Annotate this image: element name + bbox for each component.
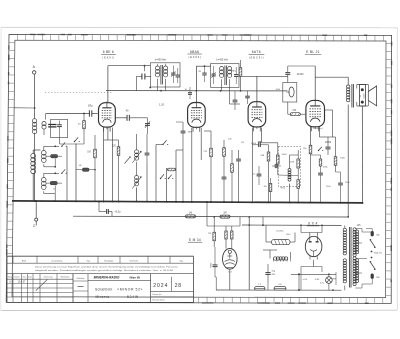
wire: [44, 145, 59, 147]
resistor 2M: [220, 215, 230, 218]
wire: [294, 227, 296, 233]
tube 6AT6 U3: [248, 102, 266, 127]
svg-text:1M: 1M: [208, 233, 211, 235]
capacitor C7: [222, 176, 227, 178]
resistor R2: [94, 149, 97, 158]
wire: [315, 76, 348, 78]
resistor R10 521R: [297, 159, 300, 168]
wire transformer taps: [355, 228, 362, 230]
wire: [195, 66, 197, 102]
capacitor 1500b: [338, 182, 343, 184]
resistor 300k: [319, 159, 322, 166]
coil T2a: [220, 67, 224, 71]
power transformer core: [349, 227, 351, 288]
capacitor 0,1: [257, 173, 262, 175]
AVC dashed line: [45, 92, 112, 94]
svg-text:6AT6: 6AT6: [252, 50, 261, 54]
voltage selector fuse top: [371, 231, 374, 236]
svg-text:19.4.57: 19.4.57: [18, 281, 26, 283]
core slug resistor 2: [50, 181, 57, 184]
tube 6BE6 U1: [99, 103, 116, 127]
svg-text:2M: 2M: [223, 213, 226, 215]
coupling capacitor 21000: [285, 72, 290, 74]
dial lamp: [326, 277, 333, 284]
wire: [215, 277, 217, 290]
trimmer T1a: [171, 72, 175, 74]
svg-text:6BA6: 6BA6: [190, 50, 199, 54]
svg-text:0130: 0130: [364, 93, 366, 99]
wire: [155, 145, 157, 202]
tube EM34 U5: [223, 248, 238, 269]
wire: [242, 224, 342, 226]
tube EBL21 U4: [306, 100, 325, 126]
svg-text:6 BE 6: 6 BE 6: [103, 50, 114, 54]
antenna coil L1: [32, 119, 36, 123]
core slug resistor 1: [51, 155, 58, 158]
capacitor: [233, 99, 238, 101]
fuse J2: [255, 287, 266, 291]
resistor 20k: [269, 184, 272, 192]
padder cap: [145, 123, 150, 125]
wire: [287, 91, 289, 102]
wire: [43, 164, 45, 167]
title block revision table: [7, 278, 73, 280]
terminal A: [33, 71, 36, 74]
title block frame: [7, 255, 194, 257]
IF transformer T2: [211, 64, 239, 88]
power transformer primary: [343, 228, 346, 231]
decoupling capacitor: [144, 66, 146, 72]
svg-text:E M 34: E M 34: [189, 238, 201, 242]
svg-text:÷0,5μ: ÷0,5μ: [115, 211, 122, 214]
switch S1b: [61, 173, 62, 174]
resistor R1 50: [83, 121, 86, 129]
wire: [314, 66, 316, 100]
power transformer secondary outer: [355, 230, 358, 233]
resistor R9 5000: [277, 155, 280, 164]
wire: [221, 79, 223, 91]
cathode resistor 700: [258, 141, 261, 143]
svg-text:a.l.Ⅳ: a.l.Ⅳ: [303, 279, 308, 281]
wire: [66, 146, 68, 201]
svg-text:1M: 1M: [87, 152, 90, 154]
wire: [60, 143, 85, 145]
voltage selector fuse bottom: [371, 274, 374, 279]
switch S1a: [61, 146, 62, 147]
resistor R11 50k: [297, 180, 300, 189]
svg-text:5000: 5000: [282, 154, 287, 156]
svg-text:f₁=455 kHz: f₁=455 kHz: [155, 58, 167, 61]
resistor R21: [225, 231, 227, 239]
trimmer T2a: [211, 73, 215, 75]
resistor 1M b: [186, 215, 196, 218]
switch S3: [74, 141, 75, 142]
svg-text:Minerva: Minerva: [96, 295, 110, 299]
wire lamp rail: [291, 273, 336, 275]
power transformer secondary: [353, 228, 356, 231]
IF2 core: [224, 66, 226, 86]
switch S2c: [168, 178, 169, 179]
selector contact dots: [371, 251, 373, 253]
title block drawing number: [150, 274, 152, 303]
svg-text:E BL 21: E BL 21: [306, 50, 320, 54]
wire: [310, 127, 312, 146]
selector switch 1: [371, 241, 375, 247]
capacitor T2 pre: [202, 72, 206, 74]
title block scale box: [72, 274, 74, 303]
bypass capacitor 50000: [326, 146, 331, 148]
capacitor 0.5: [106, 209, 108, 214]
wire: [309, 233, 311, 238]
title block replacement cells: [151, 296, 194, 298]
fuse 68: [274, 287, 286, 291]
wire: [106, 90, 288, 92]
svg-text:524W: 524W: [127, 295, 139, 299]
electrolytic box: [283, 83, 297, 103]
selector switch 2: [371, 263, 375, 269]
coupling coil L1b: [42, 122, 46, 126]
wire: [43, 191, 45, 193]
speaker cone: [368, 86, 376, 106]
trimmer C0: [57, 124, 62, 126]
resistor R4: [210, 148, 213, 157]
wire: [157, 79, 159, 91]
resistor 700: [309, 145, 312, 154]
screen cap 40: [126, 115, 128, 121]
wire transformer down: [347, 111, 349, 217]
svg-text:1M: 1M: [189, 212, 192, 214]
potentiometer: [125, 157, 131, 164]
electrolytic 60u: [265, 272, 270, 274]
resistor 1500: [334, 157, 337, 166]
svg-text:72K: 72K: [292, 110, 297, 112]
capacitor 1R2: [181, 130, 186, 132]
svg-text:Gepr.: Gepr.: [28, 276, 33, 278]
output transformer T3 primary: [347, 85, 350, 88]
grid capacitor 1Rg: [88, 110, 90, 116]
switch S2a: [162, 144, 163, 145]
svg-text:2024: 2024: [153, 283, 168, 289]
title block header row: [7, 262, 194, 264]
IF1 core: [160, 65, 162, 85]
svg-text:75000: 75000: [211, 262, 213, 268]
paper edge: [1, 26, 397, 29]
wire: [207, 225, 240, 227]
title block notice text: [7, 273, 194, 275]
terminal C: [35, 218, 38, 221]
wire: [107, 66, 109, 103]
wire: [103, 128, 105, 202]
switch tone: [318, 150, 319, 151]
wire speaker down: [361, 106, 363, 203]
trimmer T1b: [176, 74, 180, 76]
grid resistor 72K: [290, 113, 300, 116]
osc coil L5: [135, 150, 139, 154]
wire: [290, 154, 299, 156]
capacitor C9: [258, 143, 260, 148]
wire: [33, 149, 40, 151]
svg-text:1500: 1500: [340, 158, 346, 160]
tube 6X4 U6: [305, 236, 322, 256]
svg-text:Schaltbild: Schaltbild: [95, 287, 112, 291]
coil L4: [42, 178, 47, 183]
capacitor 10: [188, 92, 192, 94]
AF choke: [288, 169, 291, 172]
wire: [92, 93, 94, 110]
wire: [73, 215, 348, 218]
svg-text:521R: 521R: [289, 162, 294, 164]
svg-text:6 X 4: 6 X 4: [308, 222, 317, 226]
padder C: [145, 152, 150, 154]
svg-text:Gez.: Gez.: [23, 276, 27, 278]
coil T2b: [228, 67, 232, 71]
capacitor C10: [274, 164, 276, 168]
svg-text:Zeichnung: Zeichnung: [44, 276, 53, 278]
wire: [325, 109, 333, 111]
title block company name: [88, 280, 151, 282]
svg-text:28: 28: [175, 283, 182, 289]
svg-text:1R: 1R: [241, 142, 244, 144]
IF transformer T1: [150, 63, 180, 87]
svg-text:21000: 21000: [297, 73, 304, 76]
coil L3: [42, 151, 47, 156]
wire: [44, 172, 59, 174]
svg-text:MINERVA-RADIO: MINERVA-RADIO: [94, 276, 120, 280]
svg-text:10000: 10000: [325, 142, 332, 144]
output transformer core: [351, 84, 353, 108]
heater winding coil: [274, 257, 277, 260]
switch S2b: [160, 178, 161, 179]
ground bus: [12, 201, 363, 203]
svg-text:( 1 R wegen ): ( 1 R wegen ): [310, 128, 323, 130]
wire EM34 down: [229, 269, 231, 290]
resistor R6: [231, 164, 234, 173]
resistor R22: [231, 231, 233, 239]
resistor R20: [213, 232, 216, 241]
wire: [248, 217, 250, 290]
tone unit dashed box: [278, 147, 300, 187]
tube 6BA6 U2: [188, 103, 206, 128]
svg-text:220: 220: [112, 145, 117, 148]
ferrite antenna box: [51, 120, 68, 138]
coil L2: [31, 154, 36, 159]
wire: [157, 64, 159, 66]
resistor R8 52R: [267, 152, 270, 161]
osc coil L6: [135, 176, 139, 180]
svg-text:20k: 20k: [264, 186, 267, 188]
bus junction dots: [34, 200, 36, 202]
svg-text:f₂=455 kHz: f₂=455 kHz: [216, 58, 229, 61]
wire: [216, 289, 342, 291]
wire: [46, 113, 90, 115]
grid capacitor EM34: [213, 264, 218, 266]
resistor R3 220: [117, 147, 120, 156]
wire selector: [362, 231, 371, 233]
wire: [313, 260, 315, 267]
svg-text:«MINOR 52»: «MINOR 52»: [117, 287, 143, 291]
coil T1a: [156, 66, 160, 70]
capacitor 300: [318, 172, 323, 174]
wire: [33, 74, 35, 119]
core slug resistor: [168, 168, 176, 171]
trimmer T2b: [234, 74, 238, 76]
svg-text:Regl. 5%: Regl. 5%: [374, 253, 382, 255]
title block diagonal mark: [36, 280, 47, 291]
svg-text:115: 115: [357, 224, 361, 227]
svg-text:52R: 52R: [260, 155, 264, 157]
resistor R7: [239, 68, 242, 77]
ferrite core: [48, 124, 56, 126]
wire dial lamp: [332, 278, 336, 280]
slug resistor 4R: [82, 168, 89, 171]
svg-text:4Rbu: 4Rbu: [231, 71, 237, 73]
coil T1b: [164, 66, 168, 70]
border frame: [6, 34, 391, 303]
capacitor C8: [236, 158, 241, 160]
wire: [256, 76, 258, 101]
speaker: [360, 85, 366, 107]
capacitor: [245, 95, 250, 97]
svg-text:6,3Ⅳ: 6,3Ⅳ: [315, 279, 320, 281]
resistor R5: [223, 148, 226, 157]
